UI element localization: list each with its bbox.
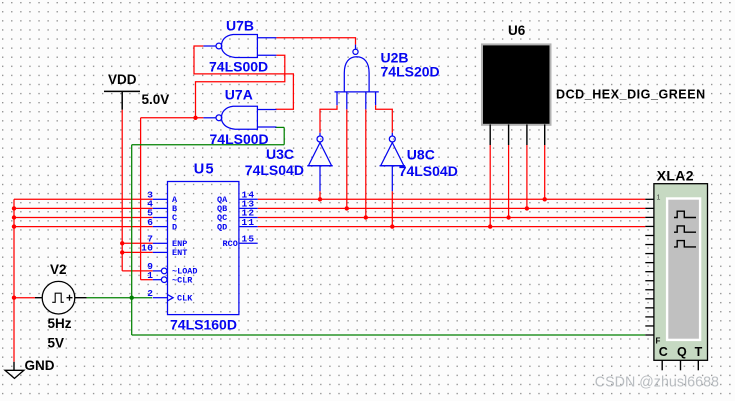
svg-text:U8C: U8C — [407, 147, 435, 163]
svg-text:VDD: VDD — [108, 72, 137, 87]
svg-text:V2: V2 — [50, 262, 67, 277]
svg-text:CLK: CLK — [177, 293, 193, 303]
svg-text:U5: U5 — [194, 162, 215, 178]
svg-text:15: 15 — [242, 234, 256, 245]
svg-text:ENT: ENT — [172, 248, 187, 258]
svg-text:5V: 5V — [48, 335, 65, 350]
svg-text:74LS20D: 74LS20D — [381, 64, 440, 80]
svg-text:74LS04D: 74LS04D — [399, 163, 458, 179]
svg-text:6: 6 — [147, 217, 153, 228]
svg-text:~CLR: ~CLR — [172, 275, 193, 285]
svg-text:DCD_HEX_DIG_GREEN: DCD_HEX_DIG_GREEN — [556, 88, 706, 102]
svg-text:10: 10 — [141, 243, 153, 254]
svg-text:RCO: RCO — [223, 239, 238, 249]
svg-text:74LS00D: 74LS00D — [210, 131, 269, 147]
svg-text:QD: QD — [217, 222, 227, 232]
svg-text:2: 2 — [147, 288, 153, 299]
svg-text:C: C — [659, 345, 668, 359]
svg-text:74LS00D: 74LS00D — [209, 59, 268, 75]
svg-text:U3C: U3C — [266, 146, 294, 162]
svg-text:5Hz: 5Hz — [48, 316, 72, 331]
svg-text:U6: U6 — [508, 23, 526, 38]
svg-text:11: 11 — [242, 217, 256, 228]
svg-text:CSDN @zhusl6688: CSDN @zhusl6688 — [595, 374, 719, 390]
svg-text:U7A: U7A — [225, 87, 253, 103]
svg-text:XLA2: XLA2 — [657, 168, 694, 184]
svg-text:74LS160D: 74LS160D — [170, 317, 237, 333]
svg-text:1: 1 — [147, 270, 153, 281]
svg-text:1: 1 — [657, 195, 661, 202]
svg-text:5.0V: 5.0V — [142, 92, 170, 107]
svg-text:T: T — [695, 345, 703, 359]
svg-text:74LS04D: 74LS04D — [245, 162, 304, 178]
svg-text:D: D — [172, 222, 177, 232]
svg-text:Q: Q — [677, 345, 687, 359]
svg-text:U7B: U7B — [226, 18, 254, 34]
svg-text:GND: GND — [25, 358, 55, 373]
